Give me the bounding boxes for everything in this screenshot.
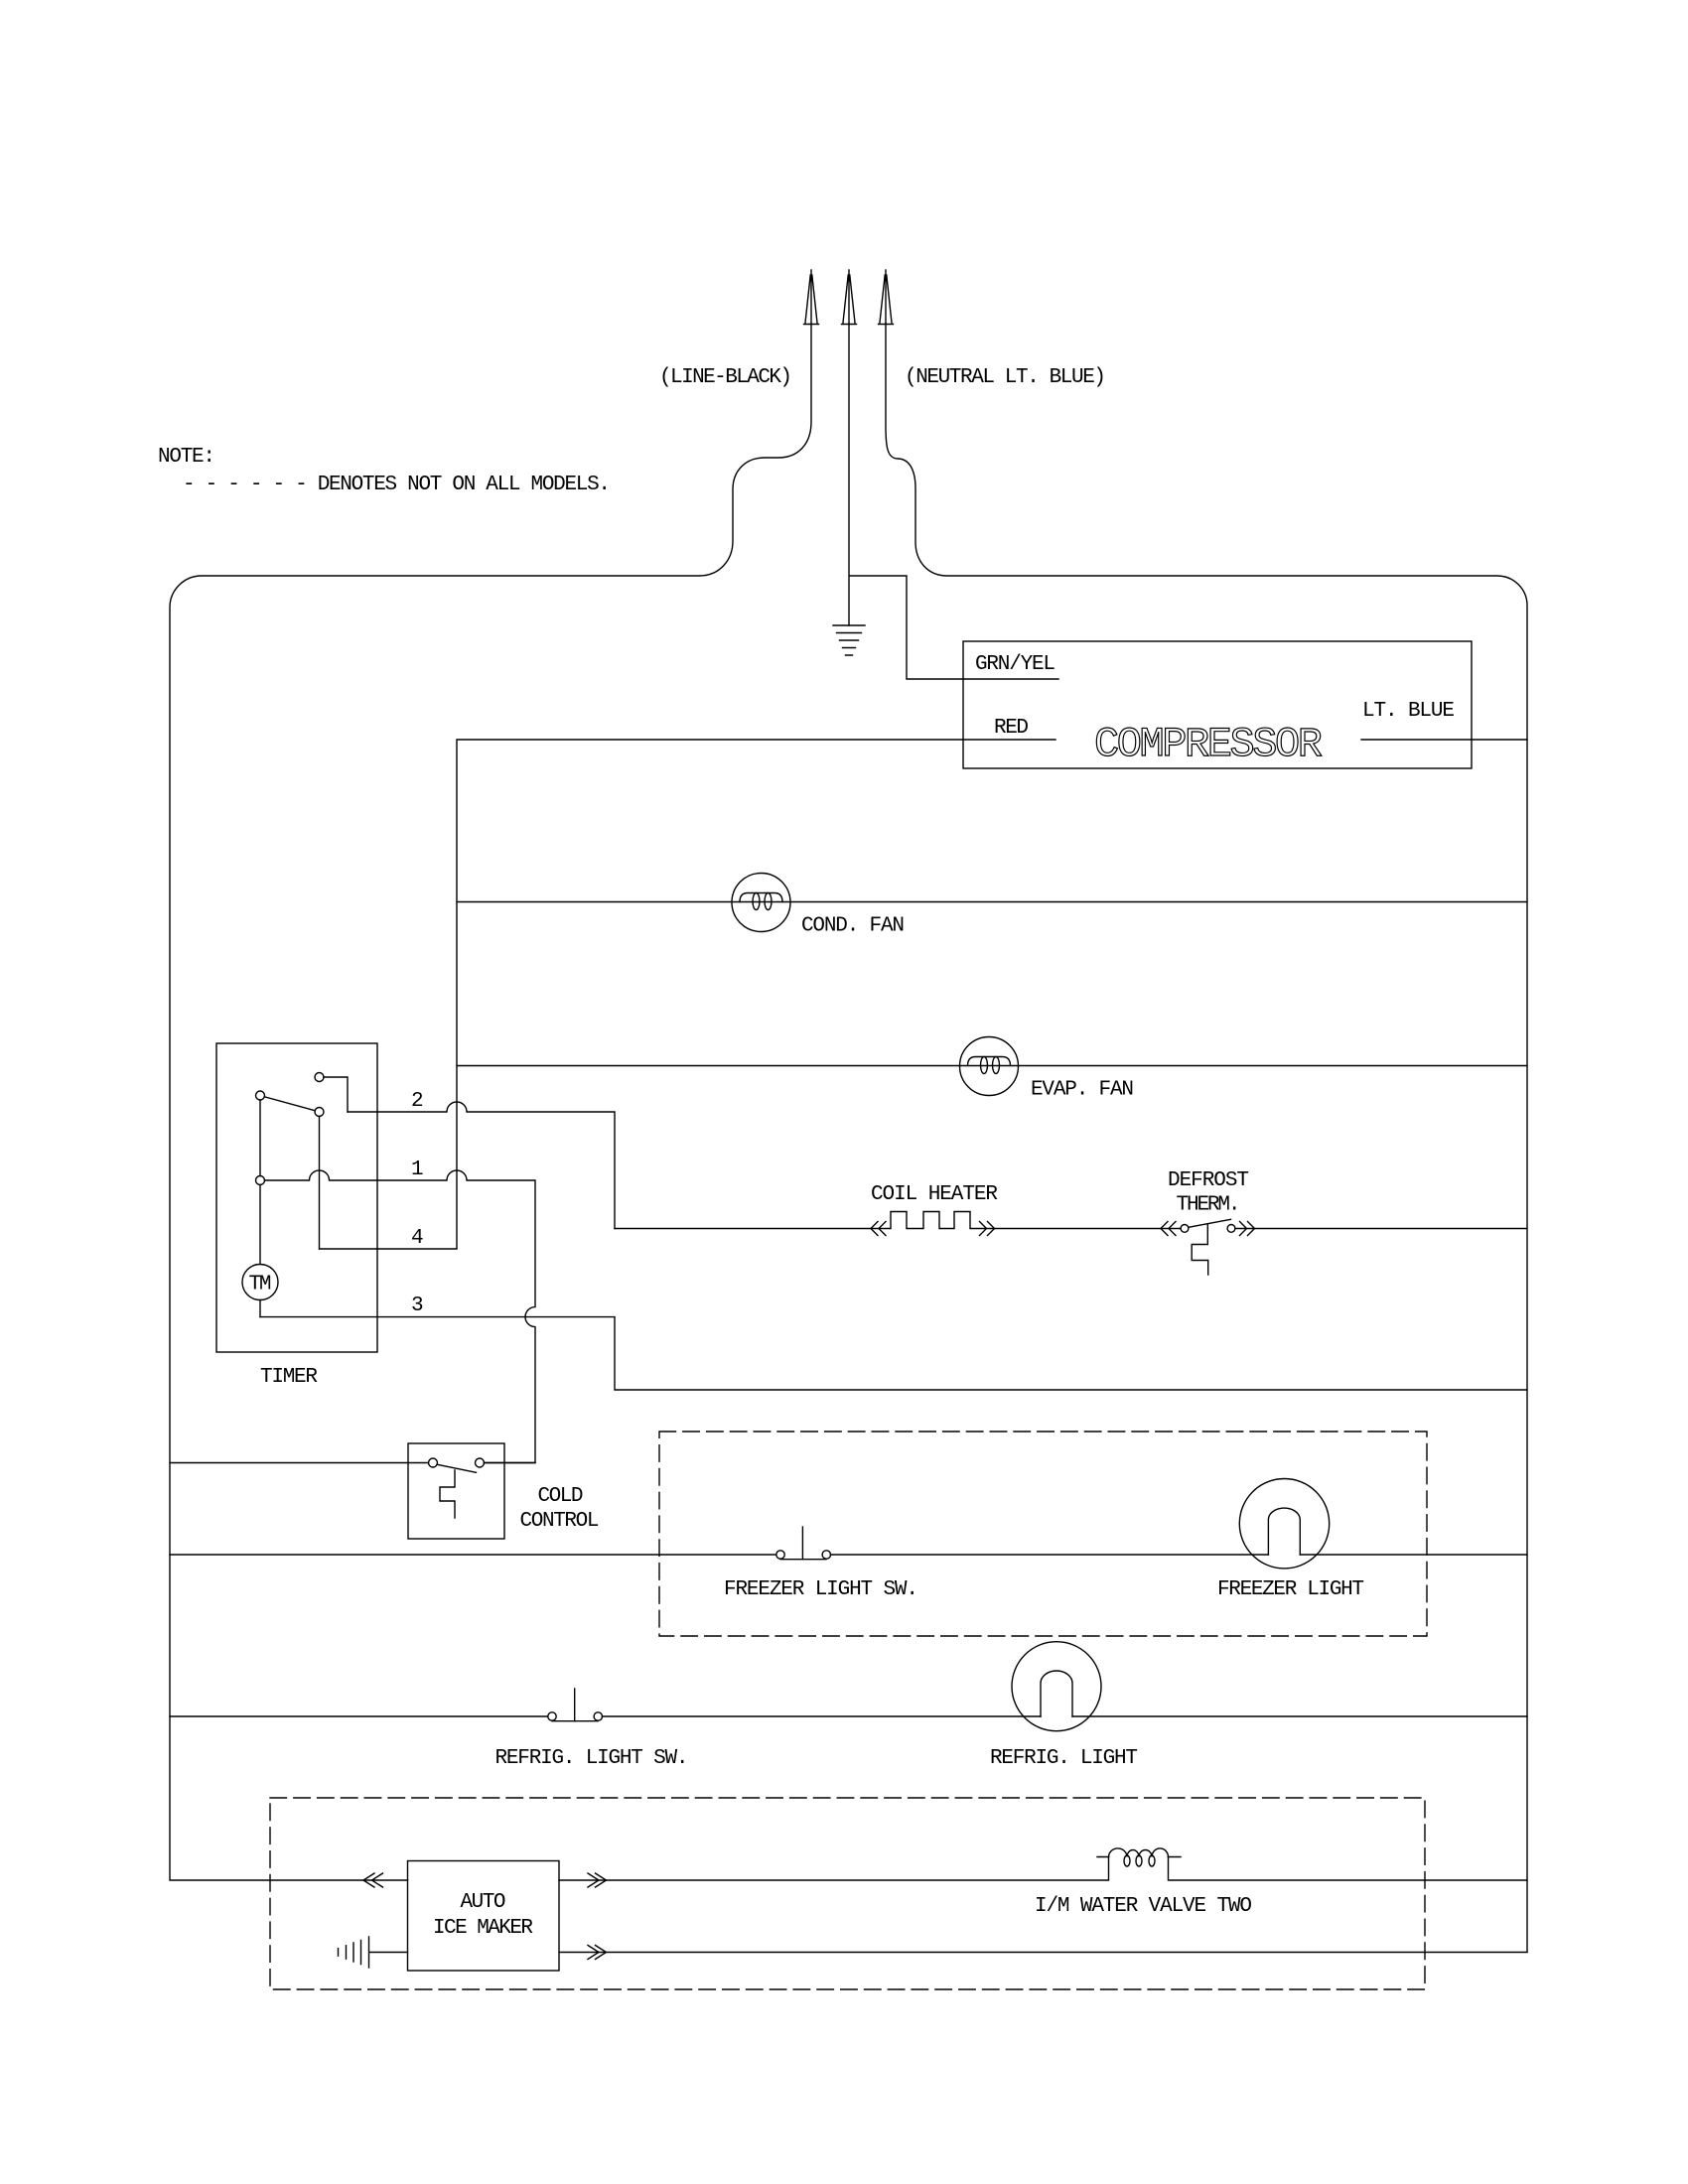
svg-text:REFRIG. LIGHT: REFRIG. LIGHT: [990, 1747, 1138, 1770]
svg-text:I/M WATER VALVE TWO: I/M WATER VALVE TWO: [1035, 1895, 1252, 1918]
svg-text:THERM.: THERM.: [1177, 1194, 1241, 1217]
svg-text:1: 1: [411, 1159, 424, 1181]
svg-text:COLD: COLD: [538, 1485, 584, 1508]
svg-text:DEFROST: DEFROST: [1168, 1169, 1249, 1192]
svg-text:TIMER: TIMER: [260, 1366, 318, 1389]
svg-text:FREEZER LIGHT SW.: FREEZER LIGHT SW.: [724, 1578, 918, 1601]
svg-text:COMPRESSOR: COMPRESSOR: [1094, 721, 1323, 768]
svg-text:COND. FAN: COND. FAN: [801, 915, 905, 938]
svg-text:FREEZER LIGHT: FREEZER LIGHT: [1217, 1578, 1364, 1601]
svg-text:(NEUTRAL LT. BLUE): (NEUTRAL LT. BLUE): [905, 366, 1106, 389]
svg-text:CONTROL: CONTROL: [520, 1510, 600, 1533]
svg-text:NOTE:: NOTE:: [158, 446, 215, 469]
svg-text:4: 4: [411, 1227, 424, 1250]
svg-text:COIL HEATER: COIL HEATER: [871, 1183, 998, 1206]
svg-text:LT. BLUE: LT. BLUE: [1362, 700, 1455, 723]
svg-text:AUTO: AUTO: [461, 1891, 506, 1914]
svg-text:REFRIG. LIGHT SW.: REFRIG. LIGHT SW.: [495, 1747, 689, 1770]
svg-text:- - - - - - DENOTES NOT ON ALL: - - - - - - DENOTES NOT ON ALL MODELS.: [183, 474, 611, 496]
svg-text:GRN/YEL: GRN/YEL: [975, 653, 1055, 676]
svg-text:ICE MAKER: ICE MAKER: [433, 1917, 533, 1940]
svg-text:RED: RED: [994, 717, 1029, 740]
svg-text:EVAP. FAN: EVAP. FAN: [1031, 1079, 1134, 1102]
svg-text:TM: TM: [249, 1274, 272, 1297]
svg-text:(LINE-BLACK): (LINE-BLACK): [659, 366, 792, 389]
svg-text:2: 2: [411, 1090, 424, 1113]
svg-text:3: 3: [411, 1295, 424, 1317]
